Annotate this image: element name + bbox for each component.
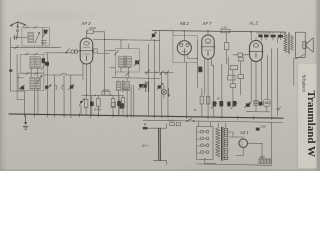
switch S1a [15, 45, 19, 49]
detector box [173, 35, 197, 62]
screen rail [93, 39, 159, 42]
svg-text:110 V: 110 V [142, 143, 149, 147]
right column boxes [230, 65, 237, 69]
T2 wires [119, 78, 134, 116]
resistor vertical 1 [84, 100, 88, 108]
fuse F1 [170, 123, 175, 126]
vertical [213, 65, 215, 117]
tube AZ1 [239, 139, 248, 148]
resistor R8 [200, 96, 204, 104]
grid cap pair [71, 50, 74, 53]
resistor row R11 [264, 35, 269, 38]
tone switch box [264, 99, 271, 106]
svg-text:570Ω: 570Ω [90, 26, 96, 30]
antenna terminal [16, 30, 18, 32]
svg-text:AF 7: AF 7 [202, 21, 213, 26]
selector contacts [201, 130, 209, 153]
coil T1a [119, 57, 124, 68]
AF7 anode [207, 31, 209, 35]
transformer core [289, 33, 290, 54]
junctions [86, 95, 87, 96]
power box bottom [197, 122, 272, 165]
electrolytic [90, 102, 94, 107]
electrolytic cluster [213, 101, 217, 106]
speaker return vertical [293, 59, 295, 86]
padder cap L2 [42, 58, 45, 63]
rail junctions [104, 39, 105, 40]
vertical right of box [196, 40, 198, 88]
detector box stub [172, 31, 174, 35]
check mark [277, 107, 281, 110]
trimmer arrow L2 [41, 62, 46, 70]
mains terminal [143, 127, 148, 129]
tube AF7 [201, 35, 215, 59]
row feed wires [251, 32, 280, 41]
svg-text:50 000: 50 000 [94, 110, 102, 112]
resistor row R10 [258, 35, 262, 38]
cap marks [146, 82, 149, 92]
core T1 [123, 56, 126, 68]
dropper feed wires [147, 123, 166, 164]
svg-text:0,25: 0,25 [222, 25, 228, 29]
tube AF3 [79, 38, 94, 64]
AL2 below wires [251, 55, 267, 104]
coupling cap blob [198, 67, 202, 73]
bus junction dots [24, 114, 272, 119]
coil T2a [116, 81, 121, 90]
switch on T1 [105, 50, 115, 52]
resistor R9 [206, 96, 210, 104]
selector bottom wire [205, 158, 216, 163]
small box near bus [111, 102, 115, 107]
trimmer T2 [139, 84, 143, 87]
chassis bus [9, 114, 283, 118]
speaker transformer primary [284, 33, 287, 53]
svg-text:AZ 1: AZ 1 [239, 130, 249, 135]
svg-text:AL 2: AL 2 [248, 21, 258, 26]
coil box L3 [18, 73, 44, 90]
coil T1b [126, 57, 131, 68]
trimmer pad [44, 30, 48, 34]
screen box AF3 [94, 49, 98, 53]
cathode wires AF3 [83, 63, 90, 116]
osc coil marks [41, 41, 46, 44]
B+ top rail [152, 31, 286, 33]
svg-text:Traumland W: Traumland W [305, 91, 317, 158]
selector voltage labels [197, 132, 201, 154]
mains cord [199, 122, 211, 127]
wires coils to bus [25, 89, 38, 115]
field coil wires [272, 38, 278, 117]
pot arrow [79, 99, 84, 106]
trimmer T1 [135, 60, 139, 64]
speaker return wire [294, 54, 305, 58]
wire antenna down [16, 32, 19, 38]
column verticals [222, 57, 233, 117]
resistor hatched [254, 100, 258, 105]
dropper top bar [153, 127, 166, 129]
AB2 cathode wires [184, 54, 197, 63]
speaker transformer secondary [291, 35, 294, 51]
blob near bus [120, 103, 124, 108]
cap box right [121, 98, 124, 108]
cap blob [117, 101, 121, 106]
T1 bottom contact [125, 72, 129, 76]
paper background [0, 0, 320, 171]
AB2 anode wire [183, 31, 185, 41]
speaker [295, 32, 313, 57]
wire second vertical [16, 55, 18, 100]
wave switch blob [20, 85, 25, 89]
dial lamp [161, 89, 166, 94]
coil L3a [30, 77, 34, 89]
wire mid verticals [47, 53, 71, 116]
svg-text:AF 3: AF 3 [81, 21, 92, 26]
wire node row [11, 46, 61, 48]
IF transformer T2 [112, 77, 160, 80]
field coil [259, 159, 271, 163]
switch node dots [156, 72, 157, 73]
coil L2b [36, 57, 40, 69]
svg-text:6325: 6325 [260, 157, 266, 159]
fuse F2 [176, 123, 181, 126]
verticals to bus [162, 62, 187, 116]
AF7 cathode wires [205, 58, 214, 116]
IF transformer T1 cage [115, 49, 139, 73]
svg-text:470Ω: 470Ω [103, 88, 109, 92]
coil box L2 [21, 53, 44, 73]
wire drop [80, 106, 82, 115]
svg-text:2000Ω 470 150 1²: 2000Ω 470 150 1² [256, 31, 274, 34]
grid feed AL2 [233, 54, 250, 56]
power transformer secondary [224, 128, 227, 159]
dropper element [159, 128, 161, 160]
wire left vertical [10, 38, 12, 91]
wire to input coil [13, 37, 27, 39]
anode resistor row wire [82, 94, 124, 96]
coil L2a [30, 57, 34, 69]
AZ1 wires [228, 137, 243, 139]
AGC arrow [151, 32, 156, 39]
crossover hump [61, 73, 67, 75]
resistor 0,25 on rail [221, 29, 230, 33]
switch dots [186, 120, 188, 122]
transformer core [222, 127, 223, 160]
heater winding wires [228, 132, 233, 137]
wave switch arrow [143, 83, 149, 89]
wire grid row to AF3 [44, 51, 80, 53]
pot arrows row [45, 85, 51, 90]
grid resistor 1M [225, 43, 229, 50]
volume pot arrow [157, 83, 163, 89]
switch S2 [66, 49, 70, 53]
mains rail [143, 120, 283, 122]
resistor 470 [102, 92, 110, 95]
tap mark [9, 70, 12, 72]
voltage selector plate [197, 127, 213, 160]
core T2 [121, 80, 124, 91]
wire L bends [11, 91, 25, 100]
ground [23, 114, 28, 129]
tube AB2 [177, 41, 191, 55]
trimmer arrow L1 [35, 32, 40, 43]
coil L3b [36, 77, 40, 89]
tube AL2 [249, 41, 264, 62]
coil T2b [125, 81, 130, 90]
wire verticals mid [148, 31, 159, 116]
resistor 570 [87, 30, 93, 34]
paper grain [0, 0, 320, 171]
T1 wires [110, 40, 129, 78]
speaker feed wires [280, 32, 285, 35]
coil box L1 [22, 26, 49, 46]
wiper arrow down [168, 88, 170, 96]
interbox links [31, 68, 38, 77]
svg-text:Schaleco: Schaleco [301, 75, 306, 93]
resistor vertical 2 [97, 99, 101, 107]
dropper bottom bar [153, 160, 166, 162]
wire row [17, 77, 23, 79]
label strip [298, 64, 317, 168]
resistor vertical 3 [111, 99, 115, 107]
svg-text:0,1 A: 0,1 A [169, 120, 175, 123]
output cluster: pot arrow [244, 103, 250, 108]
cap blob [259, 102, 263, 106]
resistor row R13 [278, 35, 283, 38]
transformer top feeds [218, 123, 226, 129]
power transformer primary [216, 128, 221, 158]
svg-text:5 000: 5 000 [123, 89, 129, 91]
wire under cluster [247, 111, 271, 113]
antenna [10, 22, 26, 29]
trimmer arrow L3 [36, 75, 42, 84]
resistor row R12 [271, 35, 276, 38]
wire to screen rail [93, 32, 104, 96]
bus ticks [25, 113, 272, 120]
capacitor C1 [15, 36, 17, 40]
anode wire AF3 [87, 32, 88, 38]
blob on x47 [45, 62, 49, 66]
cap at power [256, 128, 260, 131]
band switch pair [144, 71, 173, 73]
svg-text:AB 2: AB 2 [179, 21, 190, 26]
AVC wire row [44, 74, 83, 76]
coil L1 [28, 32, 33, 42]
svg-text:5000: 5000 [261, 127, 267, 129]
